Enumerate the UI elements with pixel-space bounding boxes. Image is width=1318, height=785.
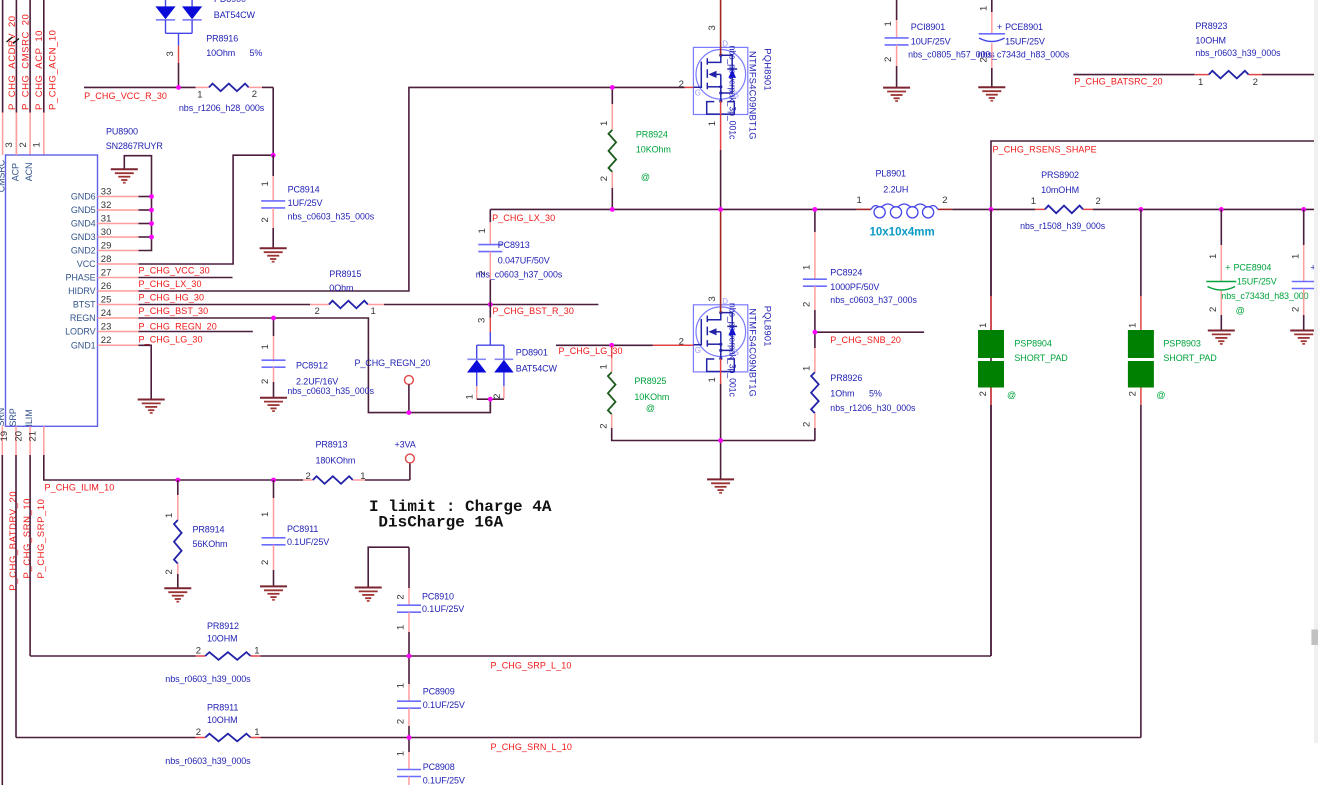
svg-text:ACN: ACN: [24, 163, 34, 182]
capacitor PC8911: [273, 480, 275, 498]
svg-text:1: 1: [260, 344, 271, 349]
junction SNB node: [813, 330, 818, 335]
svg-text:10x10x4mm: 10x10x4mm: [870, 226, 935, 238]
svg-text:PQH8901: PQH8901: [763, 48, 773, 91]
capacitor PCE8901: [991, 0, 993, 12]
power symbol P_CHG_REGN_20: [405, 376, 414, 385]
svg-text:1: 1: [260, 181, 271, 186]
pin 32 GND5: [98, 209, 139, 211]
svg-text:HIDRV: HIDRV: [68, 286, 95, 296]
junction LX/riser: [989, 207, 994, 212]
svg-text:1Ohm: 1Ohm: [830, 388, 854, 398]
pin 31 GND4: [98, 223, 139, 225]
svg-text:+: +: [997, 22, 1002, 32]
svg-text:22: 22: [101, 335, 112, 346]
pin 21 ILIM: [43, 426, 45, 455]
pin 23 LODRV: [98, 331, 139, 333]
svg-text:G: G: [695, 346, 701, 355]
ground PQL source: [707, 478, 734, 480]
svg-text:PC8910: PC8910: [422, 591, 454, 601]
svg-text:0.1UF/25V: 0.1UF/25V: [423, 776, 465, 785]
svg-text:2: 2: [978, 391, 989, 396]
pin 19 SRN: [15, 426, 17, 455]
svg-text:0Ohm: 0Ohm: [329, 283, 353, 293]
svg-text:nbs_r0603_h39_000s: nbs_r0603_h39_000s: [1195, 48, 1281, 58]
svg-text:2.2UH: 2.2UH: [883, 185, 908, 195]
wire PD8901 common: [477, 398, 504, 400]
svg-text:2: 2: [802, 422, 813, 427]
svg-text:10KOhm: 10KOhm: [634, 392, 669, 402]
svg-text:10OHM: 10OHM: [207, 634, 238, 644]
svg-text:PU8900: PU8900: [106, 126, 138, 136]
svg-text:1: 1: [1128, 323, 1139, 328]
svg-text:10KOhm: 10KOhm: [636, 145, 671, 155]
wire P_CHG_ACDRV_20 vertical: [2, 0, 4, 113]
resistor PR8911: [16, 737, 196, 739]
junction LG/PR8925: [609, 343, 614, 348]
svg-text:1: 1: [164, 513, 175, 518]
svg-text:2: 2: [396, 594, 407, 599]
svg-text:2: 2: [1290, 307, 1301, 312]
svg-text:1: 1: [197, 89, 202, 100]
svg-text:P_CHG_BATSRC_20: P_CHG_BATSRC_20: [1074, 77, 1162, 87]
svg-text:NTMFS4C09NBT1G: NTMFS4C09NBT1G: [748, 308, 758, 397]
svg-text:BAT54CW: BAT54CW: [516, 364, 558, 374]
svg-text:30: 30: [101, 227, 112, 238]
svg-text:PD8900: PD8900: [214, 0, 246, 4]
svg-text:PR8916: PR8916: [206, 34, 238, 44]
svg-text:20: 20: [13, 431, 24, 442]
svg-text:3: 3: [707, 296, 718, 301]
svg-text:1: 1: [802, 265, 813, 270]
transistor PQH8901: [693, 47, 747, 114]
svg-text:1: 1: [396, 751, 407, 756]
wire P_CHG_REGN_20: [139, 318, 491, 413]
svg-text:0.1UF/25V: 0.1UF/25V: [423, 700, 465, 710]
diode PD8900 (BAT54CW dual): [165, 0, 167, 6]
svg-text:+3VA: +3VA: [395, 439, 416, 449]
svg-text:P_CHG_SRP_L_10: P_CHG_SRP_L_10: [491, 660, 572, 670]
short pad PSP8903: [1140, 209, 1142, 296]
ground PC8911: [260, 585, 287, 587]
wire P_CHG_RSENS_SHAPE: [991, 141, 1314, 656]
svg-text:P_CHG_VCC_R_30: P_CHG_VCC_R_30: [84, 91, 167, 101]
pin 1 of PQL8901 (source): [720, 359, 722, 385]
resistor PR8924: [611, 87, 613, 104]
ground PC8912: [260, 397, 287, 399]
svg-text:P_CHG_BST_30: P_CHG_BST_30: [139, 306, 209, 316]
pin 33 GND6: [98, 196, 139, 198]
pin 29 GND2: [98, 250, 139, 252]
svg-text:REGN: REGN: [70, 313, 96, 323]
svg-text:PR8926: PR8926: [830, 373, 862, 383]
pin 3 of PQL8901 (drain): [720, 212, 722, 313]
svg-text:PR8914: PR8914: [193, 525, 225, 535]
svg-text:2: 2: [942, 195, 947, 206]
junction GND6: [149, 194, 154, 199]
ground PCE8903: [1290, 330, 1317, 332]
svg-text:1: 1: [1208, 254, 1219, 259]
wire P_CHG_BST_R_30: [384, 304, 598, 306]
junction GND5: [149, 208, 154, 213]
wire P_CHG_ILIM_10: [44, 455, 303, 480]
svg-text:2.2UF/16V: 2.2UF/16V: [296, 377, 338, 387]
capacitor PCI8901: [896, 0, 898, 20]
wire P_CHG_LX_30: [490, 208, 856, 210]
svg-text:P_CHG_ACN_10: P_CHG_ACN_10: [48, 29, 59, 110]
svg-text:2: 2: [1253, 77, 1258, 88]
wire LX to sense network: [952, 208, 1035, 210]
svg-text:SN2867RUYR: SN2867RUYR: [106, 141, 164, 151]
svg-text:nbs_c0603_h37_000s: nbs_c0603_h37_000s: [476, 270, 563, 280]
svg-text:P_CHG_REGN_20: P_CHG_REGN_20: [139, 321, 217, 331]
svg-text:PR8913: PR8913: [316, 440, 348, 450]
svg-text:10OHM: 10OHM: [207, 715, 238, 725]
svg-text:CMSRC: CMSRC: [0, 159, 7, 192]
svg-text:PSP8904: PSP8904: [1014, 338, 1051, 348]
pin 26 HIDRV: [98, 290, 139, 292]
wire sense to caps: [1141, 208, 1314, 210]
svg-text:BTST: BTST: [73, 300, 96, 310]
svg-text:1: 1: [599, 121, 610, 126]
wire P_CHG_CMSRC_20 vertical: [15, 0, 17, 113]
svg-text:2: 2: [679, 337, 684, 348]
svg-text:PC8911: PC8911: [287, 524, 318, 534]
svg-text:SHORT_PAD: SHORT_PAD: [1014, 353, 1068, 363]
junction ILIM/PR8914: [175, 478, 180, 483]
svg-text:P_CHG_VCC_30: P_CHG_VCC_30: [139, 266, 210, 276]
junction HG/PR8924: [610, 85, 615, 90]
svg-text:32: 32: [101, 200, 112, 211]
svg-text:2: 2: [196, 727, 201, 738]
capacitor PC8913: [489, 209, 491, 222]
svg-text:2: 2: [598, 423, 609, 428]
svg-text:P_CHG_SNB_20: P_CHG_SNB_20: [830, 335, 901, 345]
svg-text:2: 2: [599, 176, 610, 181]
svg-text:1: 1: [464, 394, 475, 399]
svg-text:2: 2: [164, 569, 175, 574]
svg-text:nbs_c0603_h35_000s: nbs_c0603_h35_000s: [287, 386, 374, 396]
power symbol +3VA: [409, 463, 411, 480]
svg-text:1000PF/50V: 1000PF/50V: [830, 282, 879, 292]
junction REGN power stem: [407, 410, 412, 415]
svg-text:56KOhm: 56KOhm: [193, 539, 228, 549]
resistor PR8925: [611, 345, 613, 358]
svg-text:21: 21: [27, 431, 38, 442]
ground cap chain: [355, 587, 382, 589]
wire VCC riser: [139, 155, 274, 264]
svg-text:33: 33: [101, 186, 112, 197]
wire P_CHG_ACN_10 vertical: [43, 0, 45, 113]
resistor PR8923: [1195, 74, 1209, 76]
svg-text:PD8901: PD8901: [516, 348, 548, 358]
resistor PR8915: [139, 304, 311, 306]
svg-text:DisCharge 16A: DisCharge 16A: [378, 514, 503, 532]
svg-text:1: 1: [371, 306, 376, 317]
svg-text:G: G: [695, 89, 701, 98]
short pad PSP8904: [990, 209, 992, 296]
svg-text:10UF/25V: 10UF/25V: [911, 36, 951, 46]
junction PCE8903 branch: [1301, 207, 1306, 212]
svg-text:1: 1: [802, 366, 813, 371]
ground PR8914: [164, 587, 191, 589]
svg-text:2: 2: [1096, 196, 1101, 207]
svg-text:2: 2: [679, 79, 684, 90]
svg-text:PR8925: PR8925: [634, 376, 666, 386]
svg-text:P_CHG_BST_R_30: P_CHG_BST_R_30: [493, 306, 574, 316]
svg-text:2: 2: [315, 306, 320, 317]
svg-text:3: 3: [4, 142, 15, 147]
svg-text:P_CHG_BATDRV_20: P_CHG_BATDRV_20: [8, 491, 19, 591]
svg-text:NTMFS4C09NBT1G: NTMFS4C09NBT1G: [748, 51, 758, 140]
svg-text:@: @: [641, 172, 650, 182]
pin 24 REGN: [98, 317, 139, 319]
svg-text:@: @: [1236, 306, 1245, 316]
pin 1 of PD8901: [476, 386, 478, 399]
capacitor PC8912: [273, 318, 275, 336]
svg-text:PR8924: PR8924: [636, 129, 668, 139]
resistor PRS8902: [1035, 208, 1045, 210]
pin 2 of PQL8901 (gate): [653, 344, 694, 346]
svg-text:5%: 5%: [869, 388, 882, 398]
capacitor PC8910: [408, 547, 410, 588]
svg-text:PR8911: PR8911: [207, 702, 238, 712]
junction REGN/PC8912: [271, 316, 276, 321]
wire P_CHG_LG_30 stub: [139, 331, 253, 333]
svg-text:10Ohm: 10Ohm: [206, 48, 235, 58]
wire P_CHG_LG_30: [556, 344, 653, 346]
svg-text:PRS8902: PRS8902: [1041, 170, 1079, 180]
junction SRN_L/caps: [407, 735, 412, 740]
wire PR8916 to VCC node: [272, 87, 274, 155]
ground IC top: [111, 168, 138, 170]
svg-text:0.1UF/25V: 0.1UF/25V: [287, 537, 329, 547]
svg-text:PC8914: PC8914: [288, 185, 320, 195]
svg-text:1: 1: [598, 364, 609, 369]
svg-text:1: 1: [707, 377, 718, 382]
svg-text:nbs_r1206_h30_000s: nbs_r1206_h30_000s: [830, 403, 916, 413]
pin 27 PHASE: [98, 277, 139, 279]
svg-text:PQL8901: PQL8901: [763, 306, 773, 347]
svg-text:PR8912: PR8912: [207, 621, 239, 631]
svg-text:3: 3: [165, 51, 176, 56]
junction PD8901 bottom: [488, 397, 493, 402]
svg-text:ACP: ACP: [10, 163, 20, 181]
svg-text:P_CHG_REGN_20: P_CHG_REGN_20: [355, 358, 431, 368]
wire P_CHG_BATDRV_20: [1, 455, 3, 785]
wire P_CHG_VCC_R_30: [84, 86, 196, 88]
junction LX/PR8924: [610, 207, 615, 212]
svg-text:24: 24: [101, 308, 112, 319]
ground PC8914: [260, 247, 287, 249]
svg-text:@: @: [646, 403, 655, 413]
svg-text:1: 1: [254, 727, 259, 738]
svg-text:PCE8904: PCE8904: [1234, 262, 1272, 272]
capacitor PC8908: [408, 738, 410, 753]
junction VCC node: [271, 153, 276, 158]
svg-text:LODRV: LODRV: [65, 327, 95, 337]
pin 2 of PD8901: [503, 386, 505, 399]
svg-text:1: 1: [32, 142, 43, 147]
svg-text:@: @: [1156, 390, 1165, 400]
svg-text:1: 1: [707, 121, 718, 126]
svg-text:1: 1: [1198, 77, 1203, 88]
svg-text:15UF/25V: 15UF/25V: [1005, 36, 1045, 46]
svg-text:26: 26: [101, 281, 112, 292]
svg-text:PC8924: PC8924: [830, 268, 862, 278]
wire PQL source node: [721, 440, 816, 442]
svg-text:PCE8901: PCE8901: [1005, 22, 1043, 32]
svg-text:@: @: [1007, 390, 1016, 400]
svg-text:BAT54CW: BAT54CW: [214, 10, 256, 20]
resistor PR8916: [196, 86, 209, 88]
svg-text:P_CHG_SRN_L_10: P_CHG_SRN_L_10: [491, 742, 572, 752]
svg-text:1: 1: [978, 323, 989, 328]
svg-text:nbs_powerpak_3p_001c: nbs_powerpak_3p_001c: [727, 303, 737, 398]
transistor PQL8901: [693, 305, 747, 372]
svg-text:2: 2: [492, 394, 503, 399]
svg-text:SRN: SRN: [0, 408, 6, 427]
capacitor PCE8903: [1303, 209, 1305, 245]
svg-text:SHORT_PAD: SHORT_PAD: [1163, 353, 1217, 363]
resistor PR8912: [30, 655, 195, 657]
svg-text:GND1: GND1: [71, 341, 96, 351]
svg-text:2: 2: [802, 302, 813, 307]
pin 22 GND1: [98, 344, 139, 346]
svg-text:+: +: [1225, 262, 1230, 272]
svg-text:1: 1: [360, 471, 365, 482]
svg-text:2: 2: [883, 57, 894, 62]
ground PCI8901: [883, 87, 910, 89]
svg-text:31: 31: [101, 213, 112, 224]
svg-text:P_CHG_RSENS_SHAPE: P_CHG_RSENS_SHAPE: [993, 144, 1097, 154]
svg-text:PL8901: PL8901: [876, 168, 907, 178]
ground PCE8901: [978, 86, 1005, 88]
svg-text:GND2: GND2: [71, 246, 96, 256]
svg-text:GND3: GND3: [71, 232, 96, 242]
ground PCE8904: [1208, 330, 1235, 332]
svg-text:2: 2: [196, 646, 201, 657]
svg-text:2: 2: [260, 217, 271, 222]
capacitor PC8924: [814, 209, 816, 232]
svg-text:SRP: SRP: [8, 408, 18, 426]
svg-text:2: 2: [252, 89, 257, 100]
svg-text:1UF/25V: 1UF/25V: [288, 198, 323, 208]
svg-text:2: 2: [396, 719, 407, 724]
svg-text:nbs_c0603_h35_000s: nbs_c0603_h35_000s: [288, 212, 375, 222]
junction LX/FETs: [718, 207, 723, 212]
svg-text:10mOHM: 10mOHM: [1041, 185, 1079, 195]
pin 3 of PQH8901 (drain): [720, 0, 722, 55]
svg-text:GND4: GND4: [71, 219, 96, 229]
diode PD8901 (BAT54CW dual): [489, 332, 491, 345]
junction GND4: [149, 221, 154, 226]
svg-text:2: 2: [306, 471, 311, 482]
svg-text:23: 23: [101, 321, 112, 332]
svg-text:PR8915: PR8915: [329, 269, 361, 279]
svg-text:27: 27: [101, 267, 112, 278]
svg-text:2: 2: [18, 142, 29, 147]
svg-text:nbs_r1508_h39_000s: nbs_r1508_h39_000s: [1020, 221, 1106, 231]
svg-text:PCI8901: PCI8901: [911, 22, 945, 32]
pin 18 BATDRV: [1, 426, 3, 455]
svg-text:nbs_r1206_h28_000s: nbs_r1206_h28_000s: [179, 103, 265, 113]
pin 25 BTST: [98, 304, 139, 306]
svg-text:P_CHG_SRN_10: P_CHG_SRN_10: [22, 498, 33, 579]
svg-text:3: 3: [707, 25, 718, 30]
svg-text:PC8908: PC8908: [423, 762, 455, 772]
svg-text:PC8913: PC8913: [498, 240, 530, 250]
svg-text:PHASE: PHASE: [65, 273, 95, 283]
resistor PR8913: [303, 479, 313, 481]
junction ILIM/PC8911: [271, 478, 276, 483]
capacitor PC8914: [272, 155, 274, 176]
svg-text:nbs_c7343d_h83_000: nbs_c7343d_h83_000: [1221, 291, 1308, 301]
junction LX/PC8924: [813, 207, 818, 212]
svg-text:19: 19: [0, 431, 10, 442]
svg-text:1: 1: [1290, 254, 1301, 259]
op-amp U1 IC PU8900 box: [6, 155, 98, 426]
pin 3 of PD8901: [489, 305, 491, 318]
capacitor PC8909: [408, 656, 410, 684]
svg-text:0.047UF/50V: 0.047UF/50V: [498, 255, 550, 265]
svg-text:1: 1: [857, 195, 862, 206]
pin 3 CMSRC: [15, 113, 17, 156]
svg-text:GND6: GND6: [71, 192, 96, 202]
svg-text:1: 1: [883, 21, 894, 26]
junction GND3: [149, 235, 154, 240]
pin 2 of PQH8901 (gate): [685, 86, 694, 88]
svg-text:0.1UF/25V: 0.1UF/25V: [422, 604, 464, 614]
wire GND1 to ground: [139, 345, 152, 399]
wire P_CHG_SRN_10: [15, 455, 17, 738]
junction PCE8904 branch: [1219, 207, 1224, 212]
svg-text:1: 1: [254, 646, 259, 657]
svg-text:2: 2: [260, 560, 271, 565]
svg-text:PSP8903: PSP8903: [1163, 338, 1200, 348]
junction SRP_L/caps: [407, 654, 412, 659]
pin 1 of PQH8901 (source): [720, 101, 722, 150]
resistor PR8914: [177, 480, 179, 495]
svg-text:1: 1: [260, 512, 271, 517]
svg-text:180KOhm: 180KOhm: [316, 455, 356, 465]
junction SRN riser: [1139, 207, 1144, 212]
svg-text:10OHM: 10OHM: [1195, 35, 1226, 45]
svg-text:2: 2: [1208, 307, 1219, 312]
svg-text:nbs_r0603_h39_000s: nbs_r0603_h39_000s: [165, 756, 251, 766]
svg-text:PC8909: PC8909: [423, 687, 455, 697]
pin 20 SRP: [29, 426, 31, 455]
svg-text:PR8923: PR8923: [1195, 21, 1227, 31]
scrollbar thumb: [1311, 630, 1318, 646]
junction BST_R node: [488, 302, 493, 307]
resistor PR8926: [814, 332, 816, 348]
svg-text:2: 2: [1128, 391, 1139, 396]
svg-text:P_CHG_LX_30: P_CHG_LX_30: [492, 213, 555, 223]
svg-text:2: 2: [260, 379, 271, 384]
ground GND1: [138, 399, 165, 401]
scrollbar track: [1314, 0, 1318, 743]
svg-text:1: 1: [1031, 196, 1036, 207]
svg-text:1: 1: [396, 683, 407, 688]
wire P_CHG_ACP_10 vertical: [29, 0, 31, 113]
svg-text:25: 25: [101, 294, 112, 305]
pin 3 of PD8900: [178, 46, 180, 63]
svg-text:P_CHG_HG_30: P_CHG_HG_30: [139, 293, 205, 303]
svg-text:P_CHG_LG_30: P_CHG_LG_30: [139, 335, 203, 345]
svg-text:3: 3: [477, 318, 488, 323]
wire GND pins to top ground: [139, 196, 152, 198]
